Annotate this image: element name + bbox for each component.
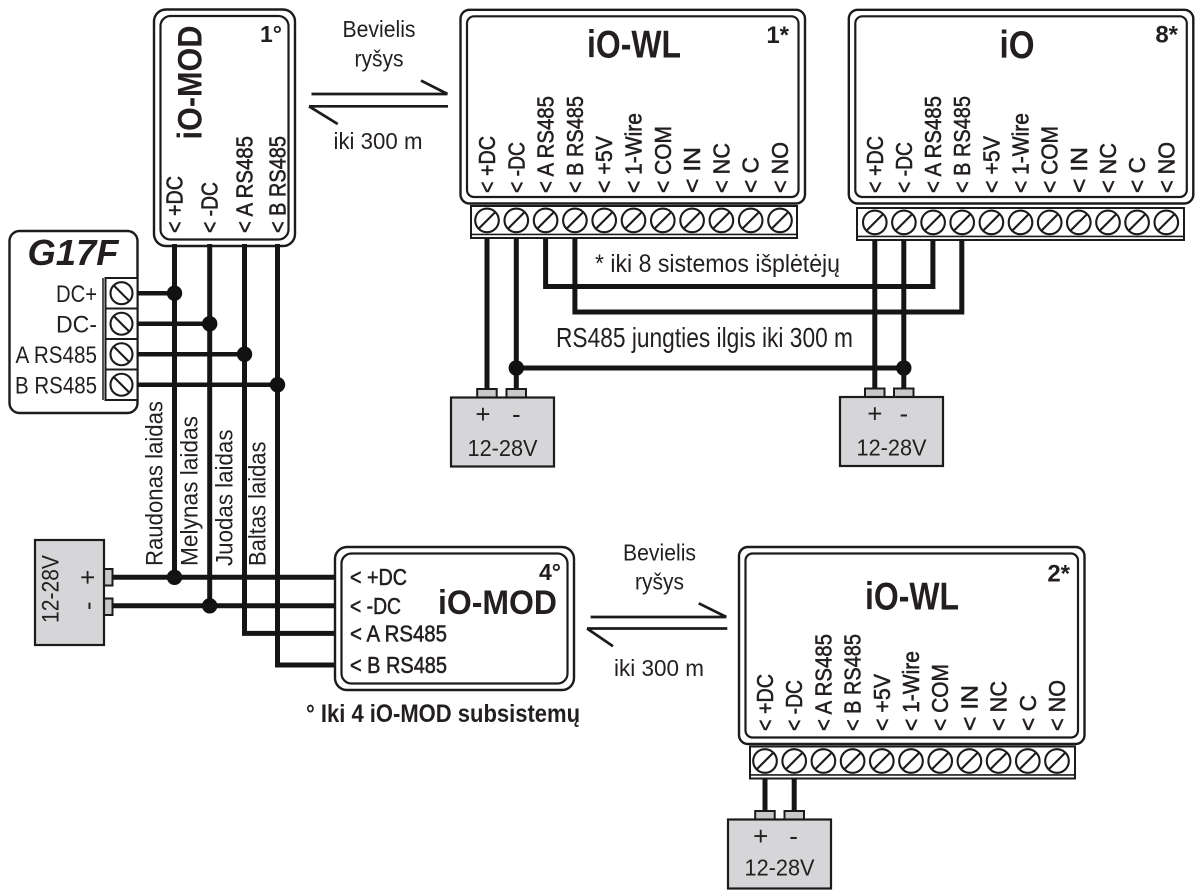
svg-text:< COM: < COM: [650, 126, 676, 193]
svg-text:Juodas laidas: Juodas laidas: [212, 430, 239, 567]
svg-text:iki 300 m: iki 300 m: [334, 128, 423, 154]
svg-text:< B RS485: < B RS485: [265, 136, 291, 233]
svg-text:12-28V: 12-28V: [857, 435, 928, 461]
svg-text:< COM: < COM: [927, 664, 953, 731]
screw terminal 3: [812, 749, 836, 773]
svg-text:2*: 2*: [1047, 561, 1070, 588]
screw terminal 6: [899, 749, 923, 773]
wire iO +DC to PSU: [872, 240, 877, 390]
svg-text:+: +: [475, 399, 490, 429]
svg-text:iki 300 m: iki 300 m: [614, 655, 704, 681]
wire -DC link between PSUs: [516, 366, 904, 371]
junction dot: [167, 286, 182, 301]
svg-text:-: -: [73, 601, 103, 610]
screw terminal 9: [710, 209, 734, 233]
G17F screw terminal: [111, 313, 133, 335]
svg-text:B RS485: B RS485: [15, 372, 97, 399]
svg-text:< A RS485: < A RS485: [920, 96, 946, 193]
wire iO -DC to PSU: [901, 240, 906, 390]
screw terminal 9: [987, 749, 1011, 773]
power supply 12-28V body: [451, 398, 554, 467]
power supply terminal tab +: [865, 389, 885, 398]
G17F terminal strip: [102, 278, 104, 400]
svg-text:12-28V: 12-28V: [745, 855, 816, 881]
module iO 8* box: [849, 10, 1194, 204]
wire A RS485 bus: [546, 238, 933, 287]
svg-text:A RS485: A RS485: [16, 342, 98, 369]
wire iO-WL1 +DC to PSU: [485, 238, 490, 390]
screw terminal 11: [1155, 211, 1179, 235]
svg-text:iO-WL: iO-WL: [865, 576, 959, 619]
svg-text:+: +: [73, 570, 103, 585]
screw terminal 10: [739, 209, 763, 233]
wire white B RS485 vertical + horizontal: [278, 244, 337, 665]
svg-text:< B RS485: < B RS485: [840, 634, 866, 731]
svg-text:RS485 jungties ilgis iki 300 m: RS485 jungties ilgis iki 300 m: [556, 322, 853, 353]
wire left PSU -: [113, 603, 337, 608]
screw terminal 9: [1096, 211, 1120, 235]
screw terminal 10: [1016, 749, 1040, 773]
svg-text:< -DC: < -DC: [350, 593, 401, 619]
svg-text:+: +: [867, 399, 882, 429]
wire iO-WL2 -DC to PSU: [792, 778, 797, 812]
wire B RS485 bus: [575, 238, 962, 312]
svg-text:1°: 1°: [260, 21, 282, 47]
svg-text:< IN: < IN: [679, 147, 705, 193]
power supply terminal tab + (left PSU): [104, 569, 113, 586]
svg-text:1*: 1*: [766, 22, 789, 49]
screw terminal 7: [928, 749, 952, 773]
screw terminal 1: [475, 209, 499, 233]
svg-text:Bevielis: Bevielis: [623, 539, 696, 565]
svg-text:< NC: < NC: [1095, 143, 1121, 193]
power supply terminal tab - (left PSU): [104, 599, 113, 616]
svg-text:< B RS485: < B RS485: [350, 652, 447, 678]
wireless arrow right (bottom): [591, 603, 727, 617]
screw terminal 7: [651, 209, 675, 233]
junction dot: [202, 316, 217, 331]
svg-text:12-28V: 12-28V: [38, 555, 65, 623]
wireless arrow right: [312, 81, 448, 94]
screw terminal 1: [863, 211, 887, 235]
svg-text:< NO: < NO: [1153, 142, 1179, 193]
screw terminal 2: [505, 209, 529, 233]
svg-text:< -DC: < -DC: [503, 142, 529, 193]
screw terminal 7: [1038, 211, 1062, 235]
module G17F box: [10, 231, 138, 413]
screw terminal 10: [1125, 211, 1149, 235]
svg-text:-: -: [512, 399, 521, 429]
svg-text:< A RS485: < A RS485: [533, 96, 559, 193]
screw terminal 4: [841, 749, 865, 773]
G17F screw terminal: [111, 343, 133, 365]
wire G17F stub: [138, 291, 173, 296]
svg-text:< +5V: < +5V: [978, 135, 1004, 193]
svg-text:< C: < C: [1124, 157, 1150, 193]
svg-text:Raudonas laidas: Raudonas laidas: [142, 401, 169, 566]
svg-text:< COM: < COM: [1037, 126, 1063, 193]
svg-text:4°: 4°: [539, 559, 561, 585]
svg-text:< NC: < NC: [986, 681, 1012, 731]
svg-text:° Iki 4 iO-MOD subsistemų: ° Iki 4 iO-MOD subsistemų: [306, 700, 580, 728]
screw terminal 8: [680, 209, 704, 233]
svg-text:* iki 8 sistemos išplėtėjų: * iki 8 sistemos išplėtėjų: [595, 250, 840, 278]
wire red +DC vertical: [172, 244, 177, 577]
module iO-MOD 4 box: [335, 547, 574, 690]
svg-text:8*: 8*: [1155, 22, 1178, 49]
power supply terminal tab +: [755, 811, 775, 820]
wire G17F stub: [138, 383, 276, 388]
svg-text:Melynas laidas: Melynas laidas: [177, 416, 204, 566]
wireless arrow left: [309, 106, 448, 124]
power supply terminal tab -: [785, 811, 805, 820]
iO 8* terminal strip: [857, 208, 1184, 240]
G17F screw terminal: [111, 374, 133, 396]
junction dot: [237, 347, 252, 362]
module iO-MOD 1 box: [154, 10, 295, 247]
svg-text:iO: iO: [1000, 24, 1035, 67]
screw terminal 3: [534, 209, 558, 233]
svg-text:DC-: DC-: [56, 311, 97, 338]
screw terminal 4: [563, 209, 587, 233]
power supply 12-28V body: [728, 820, 831, 889]
screw terminal 8: [958, 749, 982, 773]
wire left PSU +: [113, 575, 337, 580]
svg-text:< B RS485: < B RS485: [562, 96, 588, 193]
screw terminal 6: [1009, 211, 1033, 235]
svg-text:< B RS485: < B RS485: [949, 96, 975, 193]
svg-text:< 1-Wire: < 1-Wire: [1008, 113, 1034, 193]
power supply 12-28V body: [840, 397, 943, 466]
svg-text:+: +: [753, 821, 768, 851]
svg-text:< C: < C: [1015, 695, 1041, 731]
screw terminal 8: [1067, 211, 1091, 235]
iO-WL 1* terminal strip: [471, 206, 797, 238]
screw terminal 5: [592, 209, 616, 233]
svg-text:12-28V: 12-28V: [468, 435, 539, 461]
svg-text:< +DC: < +DC: [752, 674, 778, 731]
svg-text:< +5V: < +5V: [869, 673, 895, 731]
svg-text:Bevielis: Bevielis: [343, 16, 416, 42]
junction dot: [896, 360, 911, 375]
G17F screw terminal: [111, 282, 133, 304]
svg-text:-: -: [789, 821, 798, 851]
wire iO-WL2 +DC to PSU: [763, 778, 768, 812]
wire G17F stub: [138, 352, 243, 357]
svg-text:< 1-Wire: < 1-Wire: [621, 113, 647, 193]
wire G17F stub: [138, 322, 208, 327]
svg-text:< -DC: < -DC: [197, 182, 223, 233]
power supply 12-28V body (left): [35, 540, 104, 645]
junction dot: [167, 570, 182, 585]
svg-text:< NO: < NO: [767, 142, 793, 193]
svg-text:< A RS485: < A RS485: [350, 621, 447, 647]
junction dot: [270, 377, 285, 392]
power supply terminal tab +: [477, 389, 497, 398]
power supply terminal tab -: [894, 389, 914, 398]
screw terminal 5: [980, 211, 1004, 235]
power supply terminal tab -: [507, 389, 527, 398]
screw terminal 1: [753, 749, 777, 773]
module iO-WL 2* box: [739, 547, 1085, 744]
wire blue -DC vertical: [207, 244, 212, 606]
screw terminal 11: [1045, 749, 1069, 773]
svg-text:< C: < C: [738, 157, 764, 193]
svg-text:ryšys: ryšys: [355, 45, 404, 71]
junction dot: [202, 598, 217, 613]
svg-text:< -DC: < -DC: [891, 142, 917, 193]
svg-text:iO-MOD: iO-MOD: [438, 584, 557, 622]
screw terminal 2: [892, 211, 916, 235]
svg-text:< +DC: < +DC: [162, 176, 188, 233]
wire iO-WL1 -DC to PSU: [514, 238, 519, 390]
svg-text:< NO: < NO: [1044, 680, 1070, 731]
svg-text:< +DC: < +DC: [862, 136, 888, 193]
svg-text:ryšys: ryšys: [635, 568, 684, 594]
svg-text:iO-WL: iO-WL: [587, 24, 681, 67]
wire black A RS485 vertical + horizontal: [245, 244, 337, 633]
screw terminal 2: [782, 749, 806, 773]
svg-text:< A RS485: < A RS485: [810, 634, 836, 731]
screw terminal 4: [950, 211, 974, 235]
screw terminal 3: [921, 211, 945, 235]
svg-text:DC+: DC+: [56, 281, 97, 308]
svg-text:< 1-Wire: < 1-Wire: [898, 651, 924, 731]
svg-text:< IN: < IN: [956, 685, 982, 731]
wireless arrow left (bottom): [587, 629, 727, 647]
svg-text:< A RS485: < A RS485: [232, 136, 258, 233]
svg-text:iO-MOD: iO-MOD: [172, 26, 210, 140]
svg-text:< -DC: < -DC: [781, 680, 807, 731]
svg-text:< NC: < NC: [708, 143, 734, 193]
screw terminal 11: [768, 209, 792, 233]
junction dot: [509, 360, 524, 375]
screw terminal 5: [870, 749, 894, 773]
svg-text:< +DC: < +DC: [350, 564, 407, 590]
svg-text:Baltas laidas: Baltas laidas: [245, 442, 272, 567]
svg-text:< +DC: < +DC: [474, 136, 500, 193]
screw terminal 6: [622, 209, 646, 233]
svg-text:-: -: [899, 399, 908, 429]
svg-text:< +5V: < +5V: [591, 135, 617, 193]
svg-text:G17F: G17F: [28, 232, 120, 273]
iO-WL 2* terminal strip: [750, 747, 1075, 779]
module iO-WL 1* box: [461, 10, 806, 204]
svg-text:< IN: < IN: [1066, 147, 1092, 193]
